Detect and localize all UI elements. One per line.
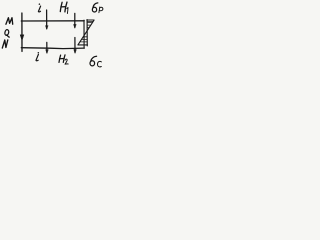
bottom seam force arrow i <box>46 42 48 52</box>
stress diagram diagonal (linear stress distribution) <box>78 20 94 45</box>
label H1 (top) <box>60 2 68 13</box>
hatching of compression triangle <box>80 37 87 42</box>
shear force Q arrowhead (down) on left edge <box>20 35 24 41</box>
stress diagram axis (section line) <box>86 20 88 46</box>
beam right edge <box>83 20 85 48</box>
top edge force arrow H1 <box>74 13 76 27</box>
label i (top) <box>38 3 40 12</box>
background <box>0 0 109 73</box>
hatching of tension triangle <box>87 21 93 27</box>
stress diagram top tick <box>87 19 94 21</box>
top seam force arrow i <box>46 10 48 29</box>
beam top edge <box>21 20 84 22</box>
label M (moment) <box>6 18 13 25</box>
stress diagram bottom tick <box>78 44 88 46</box>
label i (bottom) <box>36 52 39 61</box>
label H2 (bottom) <box>59 55 68 64</box>
label sigma_p (tension stress) <box>92 3 103 13</box>
label N (normal force) <box>2 40 8 48</box>
beam left edge / section line <box>21 13 23 51</box>
beam bottom edge <box>21 47 84 50</box>
label Q (shear) <box>4 29 9 37</box>
label sigma_c (compression stress) <box>90 56 101 67</box>
bottom edge force arrow H2 <box>74 38 76 53</box>
